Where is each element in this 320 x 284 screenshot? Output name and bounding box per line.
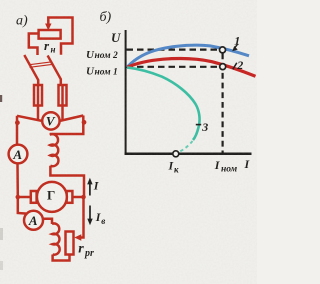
wire coil bottom to r_rg bottom — [53, 255, 70, 261]
switch blade right — [48, 56, 61, 80]
current arrow Iv — [89, 206, 91, 220]
dashed level U_nom1 — [127, 66, 220, 68]
wire bus corner down and left to armature coil — [50, 116, 84, 135]
rheostat slider arrow shaft and loop wire — [48, 18, 72, 55]
wire blade to fuse stubs — [37, 80, 40, 86]
wire left lead of r_k — [29, 34, 39, 56]
paper grain — [0, 0, 1, 1]
wire right brush to junction — [72, 196, 84, 199]
scan smudge bottom left — [0, 261, 3, 270]
junction dot brush left — [15, 195, 20, 200]
curve 1 (blue) — [127, 45, 249, 67]
voltmeter V — [42, 112, 59, 129]
dashed level U_nom2 — [127, 48, 220, 50]
wire between A1 and junction — [16, 163, 19, 197]
switch link bar — [29, 62, 53, 65]
wire junction to left brush — [18, 196, 31, 199]
wire coil L1 to right descent — [50, 166, 84, 197]
field coil L2 — [52, 223, 60, 254]
rheostat r_rg — [66, 232, 74, 255]
dashed vertical I_nom — [222, 54, 224, 153]
curve 2 (red) — [127, 58, 256, 76]
armature coil L1 — [50, 134, 59, 166]
scan smudge left edge 2 — [0, 228, 3, 240]
wire right branch down to r_rg arrow — [78, 197, 84, 238]
brush right — [67, 191, 73, 203]
marker point I_k on axis — [173, 151, 179, 157]
wire fuse1 to bus — [37, 106, 40, 121]
junction dot brush right — [81, 195, 86, 200]
x axis I — [125, 153, 252, 156]
junction dot left — [15, 120, 20, 125]
current arrow I — [89, 183, 91, 196]
leader slash of label 2 — [233, 63, 237, 70]
arrowhead of r_rg — [74, 234, 81, 240]
graph axes — [125, 30, 252, 155]
wire junction down to A2 — [18, 197, 27, 214]
marker point on curve 1 — [220, 47, 226, 53]
curve 3 (green) — [127, 67, 200, 140]
fuse F2 — [59, 85, 67, 106]
curve 3 dashed tail — [179, 141, 193, 152]
junction dot bus right — [82, 120, 87, 125]
leader dash of label 3 — [196, 124, 201, 126]
wire A2 to field coil — [42, 219, 52, 224]
wire voltmeter bus — [17, 116, 43, 121]
ammeter A2 — [24, 211, 43, 230]
fuse F1 — [34, 85, 42, 106]
slider arrowhead of r_k — [45, 24, 51, 31]
wire left branch down — [16, 116, 19, 146]
marker point on curve 2 — [220, 64, 226, 70]
y axis U — [125, 30, 127, 155]
leader arrow of label 1 — [234, 44, 237, 48]
brush left — [31, 191, 37, 203]
resistor r_k (load rheostat) — [39, 30, 61, 39]
switch blade left — [24, 55, 38, 81]
scan smudge left edge 1 — [0, 95, 2, 102]
generator armature circle — [37, 182, 67, 212]
wire fuse2 to bus — [61, 106, 64, 121]
ammeter A1 — [9, 145, 28, 164]
